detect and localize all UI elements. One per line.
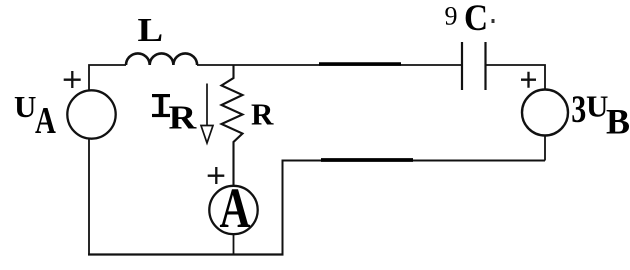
wire mid rail from UB to step-down <box>283 161 546 255</box>
plus sign at ammeter <box>208 167 225 184</box>
resistor R zigzag <box>222 65 243 186</box>
current arrow IR open head <box>201 126 213 144</box>
wire bottom rail <box>88 253 284 255</box>
wire ammeter bottom to bottom rail <box>233 235 235 255</box>
svg-text:L: L <box>138 11 164 48</box>
wire thick overdrawn segment on mid rail <box>321 158 413 162</box>
wire from capacitor to UB top <box>486 65 546 90</box>
svg-text:U: U <box>14 89 36 124</box>
svg-text:3: 3 <box>571 87 586 131</box>
ammeter circle <box>209 186 257 234</box>
wire UB bottom down to mid rail <box>544 136 546 161</box>
inductor L <box>126 53 197 65</box>
svg-text:C: C <box>464 0 488 38</box>
svg-text:9: 9 <box>445 2 458 31</box>
capacitor C plates <box>462 42 486 90</box>
wire left vertical from UA bottom to bottom rail <box>88 139 90 255</box>
svg-text:R: R <box>251 97 274 132</box>
svg-text:A: A <box>35 100 56 142</box>
plus sign at UA <box>64 71 81 88</box>
source UA circle <box>67 90 115 138</box>
svg-text:A: A <box>220 176 251 239</box>
stray dot after C <box>492 19 495 23</box>
label IR : custom wide-serif I <box>152 94 170 117</box>
source UB circle <box>522 90 568 136</box>
wire thick overdrawn segment on top rail <box>319 62 401 66</box>
current arrow IR line <box>206 84 208 127</box>
wire top-left corner from source UA up to inductor <box>89 65 126 91</box>
plus sign at UB <box>521 72 536 88</box>
wire top rail from inductor to capacitor <box>197 64 462 66</box>
svg-text:R: R <box>169 99 198 136</box>
svg-text:B: B <box>606 102 630 142</box>
